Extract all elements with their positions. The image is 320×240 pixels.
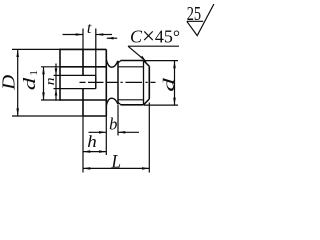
flange step bottom edge bbox=[83, 115, 106, 117]
arrowhead h right bbox=[99, 150, 106, 153]
flange left face upper bbox=[82, 49, 84, 75]
dimension h line bbox=[83, 151, 106, 153]
dimension t extension right bbox=[95, 29, 97, 89]
arrowhead b left pointing right bbox=[99, 131, 106, 134]
arrowhead d bottom bbox=[173, 98, 176, 106]
arrowhead t right pointing left bbox=[96, 33, 103, 36]
chamfer cone top diagonal bbox=[144, 61, 150, 67]
dimension b extension right bbox=[117, 105, 119, 136]
chamfer leader branch to end chamfer bbox=[128, 46, 146, 61]
inner hole n top line bbox=[60, 74, 96, 76]
part outline left end face bbox=[59, 49, 61, 101]
screw thread minor bottom line bbox=[118, 99, 144, 101]
arrowhead d1 top bbox=[42, 67, 45, 75]
dimension L right extension bbox=[148, 103, 150, 173]
dimension t line left segment bbox=[63, 34, 84, 36]
svg-text:n: n bbox=[43, 78, 57, 86]
dimension d1 line bbox=[43, 67, 45, 100]
dimension L line bbox=[83, 167, 149, 169]
arrowhead n top pointing down bbox=[55, 69, 58, 76]
dimension D line bbox=[17, 49, 19, 116]
inner hole n bottom line bbox=[60, 88, 96, 90]
screw major diameter top line bbox=[121, 60, 144, 62]
screw thread start corner chamfer top bbox=[118, 61, 121, 63]
arrowhead L right bbox=[142, 167, 149, 170]
chamfer start circle line bbox=[143, 61, 145, 105]
dimension b extension left bbox=[105, 116, 107, 155]
dimension t line right segment bbox=[96, 34, 112, 36]
wire D bottom extension line bbox=[12, 115, 83, 117]
screw left face / thread start bbox=[117, 61, 119, 105]
arrowhead D bottom bbox=[16, 108, 19, 116]
screw right end face bbox=[148, 66, 150, 99]
arrowhead h left bbox=[83, 150, 90, 153]
dimension b line left segment bbox=[89, 131, 107, 133]
neck groove top fillet bbox=[106, 60, 117, 68]
part outline top edge bbox=[60, 48, 106, 50]
inner hole n end line bbox=[95, 75, 97, 88]
dimension b line right segment bbox=[118, 131, 139, 133]
part bore bottom line bbox=[60, 99, 106, 101]
arrowhead d1 bottom bbox=[42, 92, 45, 100]
surface roughness symbol bbox=[187, 4, 214, 36]
flange right face bbox=[105, 49, 107, 116]
svg-text:1: 1 bbox=[28, 70, 40, 76]
screw major diameter bottom line bbox=[121, 104, 144, 106]
svg-text:C×45°: C×45° bbox=[130, 24, 180, 49]
chamfer leader underline bbox=[128, 45, 179, 47]
dimension d1 extension top bbox=[41, 66, 60, 68]
flange left face lower bbox=[82, 89, 84, 116]
svg-text:d: d bbox=[161, 77, 178, 92]
svg-text:D: D bbox=[0, 75, 18, 91]
screw thread start corner chamfer bottom bbox=[118, 102, 121, 104]
dimension n extension top bbox=[54, 74, 61, 76]
dimension d extension bottom bbox=[144, 104, 178, 106]
svg-text:t: t bbox=[87, 20, 92, 37]
arrowhead L left bbox=[83, 167, 90, 170]
screw thread minor top line bbox=[118, 66, 144, 68]
dimension h left extension shared with L bbox=[82, 116, 84, 173]
arrowhead chamfer leader end bbox=[140, 56, 146, 62]
part bore top line bbox=[60, 66, 106, 68]
svg-text:b: b bbox=[109, 114, 117, 133]
svg-text:L: L bbox=[111, 152, 121, 173]
dimension d extension top bbox=[144, 60, 178, 62]
arrowhead chamfer leader left bbox=[107, 37, 114, 40]
arrowhead t left pointing right bbox=[76, 33, 83, 36]
dimension n line bbox=[55, 64, 57, 101]
wire D top extension line bbox=[12, 48, 83, 50]
svg-text:h: h bbox=[87, 132, 97, 151]
dimension d line bbox=[174, 61, 176, 106]
chamfer leader arrow shaft bbox=[107, 37, 117, 39]
svg-text:d: d bbox=[20, 77, 39, 90]
neck groove bottom fillet bbox=[106, 98, 117, 105]
arrowhead D top bbox=[16, 49, 19, 57]
arrowhead b right pointing left bbox=[118, 131, 125, 134]
arrowhead n bottom pointing up bbox=[55, 89, 58, 96]
svg-text:25: 25 bbox=[187, 3, 201, 25]
dimension d1 extension bottom bbox=[41, 99, 60, 101]
node axis center line bbox=[80, 81, 156, 83]
dimension n extension bottom bbox=[54, 88, 61, 90]
dimension t extension left bbox=[82, 29, 84, 50]
arrowhead d top bbox=[173, 61, 176, 69]
chamfer cone bottom diagonal bbox=[144, 99, 150, 105]
